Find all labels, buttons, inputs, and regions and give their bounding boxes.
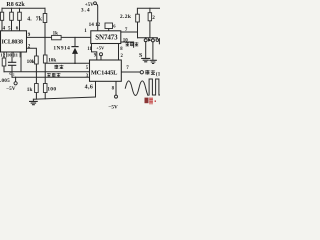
svg-text:10k: 10k	[27, 59, 35, 65]
svg-text:MC1445L: MC1445L	[91, 69, 117, 76]
svg-text:R8: R8	[6, 2, 13, 8]
svg-text:10k: 10k	[48, 58, 56, 64]
svg-text:(1: (1	[156, 70, 160, 77]
svg-text:12: 12	[0, 52, 5, 57]
svg-text:SN7473: SN7473	[95, 34, 118, 42]
svg-text:2: 2	[13, 73, 15, 77]
svg-text:7k: 7k	[36, 17, 43, 23]
svg-text:1k: 1k	[53, 31, 59, 36]
svg-text:4,6: 4,6	[85, 84, 94, 90]
svg-text:3.4: 3.4	[81, 8, 91, 14]
svg-text:−5V: −5V	[6, 86, 16, 92]
svg-text:11: 11	[87, 47, 92, 52]
svg-text:4.: 4.	[27, 17, 32, 23]
svg-text:14 12: 14 12	[89, 22, 101, 28]
svg-text:1N914: 1N914	[53, 46, 70, 52]
svg-text:1k: 1k	[27, 87, 33, 93]
svg-text:11: 11	[14, 52, 19, 57]
svg-text:−5V: −5V	[108, 105, 118, 110]
svg-text:.005: .005	[0, 78, 10, 84]
svg-text:2.2k: 2.2k	[120, 14, 132, 20]
svg-text:+5V: +5V	[96, 46, 105, 51]
svg-text:62k: 62k	[15, 2, 25, 8]
svg-text:10: 10	[7, 52, 12, 57]
svg-text:2: 2	[152, 15, 155, 21]
svg-text:100: 100	[47, 86, 56, 92]
svg-text:ICL8038: ICL8038	[2, 39, 23, 45]
